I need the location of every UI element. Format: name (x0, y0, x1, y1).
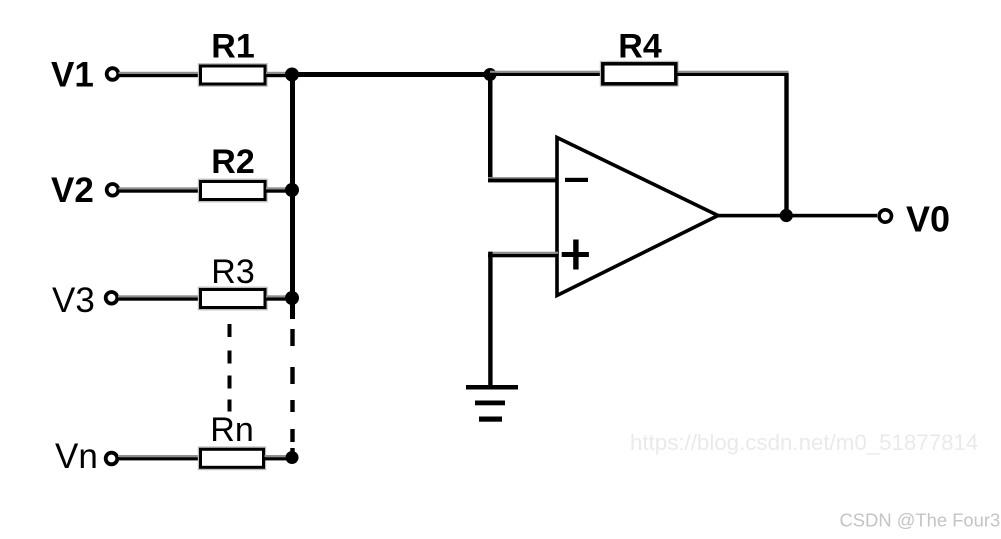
terminal V3 (106, 292, 118, 304)
resistor R4 (601, 62, 678, 86)
wire inverting node down (488, 74, 493, 182)
wire Rn to bus (265, 455, 292, 460)
junction node 3 (285, 291, 299, 305)
wire R2 to bus (266, 187, 291, 192)
svg-text:V2: V2 (51, 171, 94, 210)
svg-text:Vn: Vn (55, 437, 98, 476)
op-amp U1 (557, 138, 718, 296)
terminal V1 (107, 68, 119, 80)
junction output node (780, 209, 793, 222)
wire summing bus vertical (290, 72, 295, 319)
wire Vn to Rn (118, 455, 201, 460)
wire feedback vertical (784, 73, 788, 216)
op-amp non-inverting sign (562, 240, 589, 270)
wire inverting node to R4 (490, 71, 601, 76)
terminal V2 (107, 184, 119, 196)
op-amp inverting sign (565, 178, 588, 182)
svg-text:https://blog.csdn.net/m0_51877: https://blog.csdn.net/m0_51877814 (630, 430, 978, 455)
wire non-inverting to ground (488, 252, 492, 388)
svg-text:CSDN @The Four3: CSDN @The Four3 (840, 510, 1001, 531)
wire bus to inverting node (290, 72, 490, 77)
wire V3 to R3 (118, 295, 201, 300)
svg-text:R3: R3 (211, 253, 254, 291)
svg-text:R1: R1 (211, 28, 254, 66)
svg-text:Rn: Rn (210, 411, 253, 449)
svg-text:R2: R2 (211, 143, 254, 181)
wire R3 to bus (266, 295, 291, 300)
wire to inverting input (488, 177, 558, 182)
wire to non-inverting input (488, 252, 558, 258)
svg-text:V1: V1 (51, 56, 94, 95)
resistor R3 (199, 288, 267, 309)
wire R1 to bus (266, 72, 291, 77)
wire V1 to R1 (119, 72, 201, 77)
wire V2 to R2 (119, 187, 201, 192)
wire op-amp output (716, 214, 877, 218)
junction inverting node (484, 68, 497, 81)
junction node 2 (285, 183, 299, 197)
svg-text:V0: V0 (906, 199, 950, 240)
terminal V0 (879, 210, 891, 222)
svg-text:V3: V3 (52, 281, 95, 320)
terminal Vn (106, 453, 118, 465)
resistor R1 (199, 64, 267, 85)
svg-text:R4: R4 (618, 28, 662, 66)
dashed wire more inputs (228, 324, 232, 412)
dashed bus wire (290, 329, 294, 456)
junction node 1 (285, 68, 299, 82)
resistor Rn (199, 448, 265, 469)
junction node n (286, 451, 299, 464)
wire R4 to feedback corner (678, 71, 789, 76)
resistor R2 (199, 180, 267, 201)
ground (466, 385, 518, 422)
credit CSDN (840, 510, 1001, 532)
